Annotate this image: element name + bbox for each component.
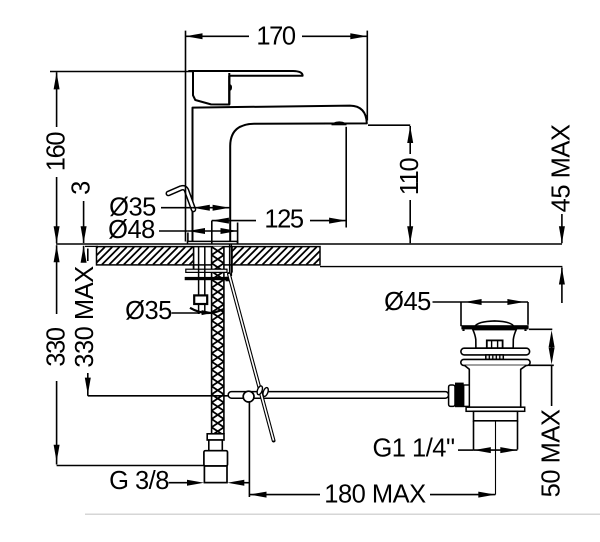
- waste side port inner ring: [464, 385, 470, 406]
- svg-text:Ø48: Ø48: [108, 216, 155, 244]
- dimension 110: [368, 124, 410, 126]
- dimension 125: [212, 220, 256, 222]
- lower diam 35 leader and ellipse: [172, 312, 201, 314]
- dimension 50 MAX: [529, 328, 552, 330]
- hose end neck: [209, 440, 223, 451]
- countertop reference line: [56, 243, 562, 245]
- hose G3/8 nut: [204, 451, 228, 466]
- waste locking disc 2: [461, 359, 530, 365]
- svg-text:110: 110: [396, 158, 424, 196]
- under-counter reference line: [320, 266, 562, 268]
- waste tailpipe upper: [474, 411, 518, 421]
- waste locking disc 1: [461, 348, 530, 355]
- svg-text:330 MAX: 330 MAX: [71, 266, 99, 368]
- dimension diam 48: [159, 230, 188, 232]
- svg-text:Ø35: Ø35: [125, 297, 172, 325]
- waste knurled nut lower: [486, 355, 504, 360]
- waste side port white cap: [449, 385, 455, 406]
- stud square nut: [194, 295, 207, 304]
- waste body shoulder: [466, 407, 525, 411]
- dimension 170: [185, 31, 187, 242]
- svg-text:180 MAX: 180 MAX: [324, 481, 426, 509]
- svg-text:G 3/8: G 3/8: [109, 467, 169, 495]
- dimension 160: [50, 71, 192, 73]
- waste plug cap dome: [475, 321, 514, 327]
- pop-up rod diagonal: [229, 274, 274, 441]
- svg-text:160: 160: [43, 132, 71, 172]
- drain pull-rod knob: [168, 188, 193, 210]
- drain centerline: [495, 421, 497, 495]
- svg-text:125: 125: [264, 206, 304, 234]
- dimension 330 MAX: [87, 249, 89, 262]
- hose end collar: [207, 434, 224, 440]
- dimension 180 MAX: [248, 403, 250, 498]
- faucet base plate: [188, 241, 238, 244]
- svg-text:330: 330: [43, 327, 71, 367]
- handle indicator dot: [229, 84, 232, 90]
- dimension G1 1/4": [458, 449, 474, 451]
- rod clevis: [256, 385, 263, 395]
- svg-text:Ø45: Ø45: [384, 288, 431, 316]
- fixing washer: [186, 269, 227, 272]
- svg-text:3: 3: [68, 181, 96, 195]
- dimension 45 MAX: [561, 214, 563, 243]
- faucet handle base: [193, 72, 229, 105]
- waste top flange: [461, 325, 528, 329]
- dimension diam 35 upper: [161, 207, 193, 209]
- rod ball joint: [243, 391, 254, 402]
- svg-text:45 MAX: 45 MAX: [548, 124, 576, 212]
- waste side port black ring: [455, 383, 464, 408]
- dimension G 3/8: [169, 482, 197, 484]
- horizontal actuating rod: [228, 392, 448, 399]
- countertop slab (hatched): [80, 247, 353, 265]
- braided supply hose: [212, 247, 224, 436]
- waste tailpipe: [473, 421, 475, 450]
- dimension diam 45: [433, 301, 462, 303]
- waste cap body: [473, 330, 517, 349]
- shank tube edges in hole: [193, 247, 195, 270]
- faint footer line: [85, 513, 600, 515]
- svg-text:50 MAX: 50 MAX: [537, 409, 565, 497]
- dimension 330: [56, 245, 58, 314]
- pop-up rod vertical segment: [229, 244, 231, 276]
- svg-text:170: 170: [256, 23, 296, 51]
- faucet lever handle: [189, 71, 303, 76]
- svg-text:G1 1/4": G1 1/4": [372, 435, 454, 463]
- waste knurled nut upper: [487, 340, 503, 348]
- faucet body and spout: [193, 106, 367, 242]
- dimension 3: [83, 201, 85, 243]
- waste body: [465, 365, 527, 407]
- hose nut lower body: [204, 466, 227, 483]
- threaded stud: [198, 247, 200, 296]
- fixing nut (black bar): [185, 277, 226, 280]
